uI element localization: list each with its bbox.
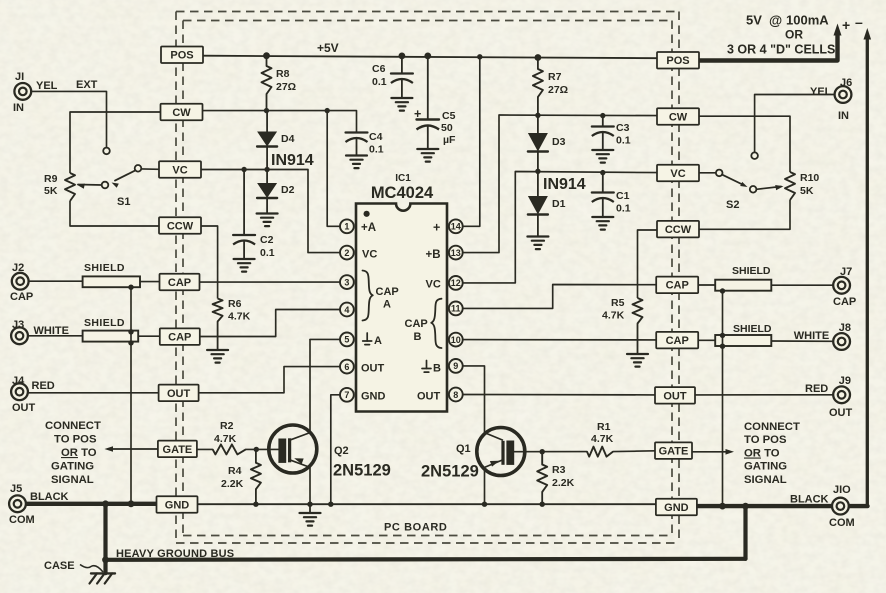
wire pin 1 to CW row [325, 108, 341, 226]
capacitor C3 [592, 113, 614, 150]
pin label VC pin2 [362, 249, 377, 261]
wire VC row left segment [142, 168, 160, 170]
svg-text:5K: 5K [800, 185, 814, 197]
op-amp U1 IC1 MC4024 body [356, 204, 447, 412]
svg-text:0.1: 0.1 [260, 247, 275, 259]
capacitor C1 [592, 170, 614, 217]
wire pin 9 to Q1 collector [463, 366, 504, 440]
svg-text:5K: 5K [44, 185, 58, 197]
svg-text:C2: C2 [260, 234, 274, 246]
svg-text:VC: VC [362, 249, 377, 261]
svg-text:R9: R9 [44, 173, 58, 185]
wire J2 row [29, 280, 83, 282]
label shield J3 [84, 317, 125, 329]
svg-text:@: @ [769, 13, 782, 28]
svg-text:OR: OR [785, 28, 803, 42]
pin label gnd A [363, 333, 382, 347]
svg-text:OR TO: OR TO [61, 447, 97, 459]
brace CAP A [363, 271, 373, 321]
svg-text:R1: R1 [597, 421, 611, 433]
label R9 [44, 173, 58, 197]
svg-text:R4: R4 [228, 465, 242, 477]
node box CW left [161, 104, 203, 121]
svg-text:GND: GND [165, 499, 190, 511]
svg-text:WHITE: WHITE [34, 325, 69, 337]
label CAP B [405, 318, 428, 343]
svg-text:J8: J8 [839, 322, 851, 334]
ground below C6 [391, 98, 412, 111]
svg-text:0.1: 0.1 [372, 76, 387, 88]
diode D3 [528, 115, 548, 174]
svg-text:D1: D1 [552, 198, 566, 210]
label C2 [260, 234, 275, 259]
svg-text:CW: CW [669, 111, 688, 123]
wire +5V rail [203, 56, 658, 59]
svg-text:CAP: CAP [666, 280, 689, 292]
wire CAP box to pin 3 [199, 281, 340, 283]
jack J4 [11, 383, 28, 400]
wire pin 13 to CW row [456, 115, 658, 253]
node box GATE right [655, 442, 692, 459]
label R3 [552, 464, 575, 489]
wire shield4 to J8 [771, 340, 833, 342]
svg-text:C5: C5 [442, 110, 456, 122]
junction dots shields [128, 285, 725, 349]
wire J6 to EXT contact S2 [755, 95, 835, 153]
svg-text:D3: D3 [552, 136, 566, 148]
wire pin 14 to +5V [456, 57, 480, 227]
svg-text:GND: GND [361, 391, 386, 403]
pin label gnd B [422, 361, 441, 375]
shield J2 [83, 276, 140, 287]
wire R9 wiper [78, 184, 102, 187]
label C3 [616, 122, 631, 147]
wire battery positive thick [698, 24, 842, 61]
wire Q2 collector riser [289, 339, 310, 440]
shield J7 [715, 280, 771, 291]
svg-text:1: 1 [344, 222, 349, 232]
svg-text:R8: R8 [276, 68, 290, 80]
svg-text:9: 9 [453, 361, 458, 371]
jack J9 [833, 386, 850, 403]
label J7 [833, 266, 856, 308]
svg-text:RED: RED [805, 383, 828, 395]
jack J2 [12, 273, 29, 290]
pin label +A [361, 222, 376, 234]
svg-text:PC BOARD: PC BOARD [384, 522, 447, 534]
svg-text:SHIELD: SHIELD [732, 265, 771, 277]
jack J8 [833, 333, 850, 350]
label R8 [276, 68, 296, 93]
svg-text:YEL: YEL [36, 80, 58, 92]
resistor R7 [533, 54, 543, 118]
label 1N914 left [271, 152, 314, 169]
junction dots ground bus [102, 500, 749, 563]
svg-text:Q1: Q1 [456, 443, 471, 455]
svg-text:+A: +A [361, 222, 376, 234]
svg-text:POS: POS [666, 55, 689, 67]
label J9 [805, 375, 853, 419]
label shield J8 [733, 323, 772, 335]
label shield J7 [732, 265, 771, 277]
node box VC right [657, 165, 699, 182]
svg-text:CCW: CCW [167, 221, 194, 233]
svg-text:2.2K: 2.2K [552, 477, 575, 489]
wire CCW row [70, 201, 160, 226]
wire S2 wiper to R10 [756, 187, 781, 190]
svg-text:J2: J2 [12, 262, 24, 274]
connect text right [744, 421, 800, 486]
svg-text:27Ω: 27Ω [548, 84, 568, 96]
svg-text:2: 2 [344, 248, 349, 258]
brace CAP B [431, 299, 441, 348]
wire CAP box to pin 4 [198, 310, 340, 337]
wire pin 8 to OUT box [463, 394, 656, 396]
label R5 [602, 297, 625, 322]
svg-text:SHIELD: SHIELD [84, 317, 125, 329]
svg-text:4.7K: 4.7K [602, 310, 625, 322]
IC pin circles with numbers [340, 219, 463, 401]
label J1 [13, 71, 98, 114]
label Q1 2N5129 [421, 463, 479, 481]
svg-text:MC4024: MC4024 [371, 184, 434, 202]
ground below D2 [257, 214, 278, 227]
svg-text:R10: R10 [800, 172, 819, 184]
svg-text:EXT: EXT [76, 79, 98, 91]
svg-text:RED: RED [32, 380, 55, 392]
shield J8 [715, 335, 771, 346]
svg-text:3 OR 4 "D" CELLS: 3 OR 4 "D" CELLS [727, 43, 835, 57]
svg-text:0.1: 0.1 [369, 144, 384, 156]
svg-text:+: + [414, 107, 421, 121]
ground below Q2 emitter [300, 504, 321, 525]
label S1 [117, 196, 130, 208]
node box CAP left 1 [160, 274, 200, 291]
node box CAP left 2 [160, 328, 200, 345]
heavy bus drop left [103, 504, 107, 573]
svg-text:13: 13 [451, 248, 461, 258]
jack J6 [835, 86, 852, 103]
label D2 [281, 184, 295, 196]
ground below C2 [234, 259, 255, 272]
gate arrow right [692, 449, 735, 455]
battery plus terminal [842, 14, 863, 33]
svg-text:SHIELD: SHIELD [733, 323, 772, 335]
label battery [727, 13, 835, 57]
svg-text:Q2: Q2 [334, 445, 349, 457]
label J10 [790, 484, 855, 529]
wire pin 10 to CAP box [463, 339, 657, 341]
svg-text:CONNECT: CONNECT [744, 421, 800, 433]
label Q2 [334, 445, 349, 457]
wire shield1 to CAP box [140, 281, 160, 283]
wire VC row right of box [201, 170, 340, 253]
svg-text:CAP: CAP [376, 286, 399, 298]
capacitor C2 [233, 167, 255, 259]
resistor R2 [213, 444, 259, 454]
wire shield ground bus right [722, 291, 724, 506]
svg-text:50: 50 [441, 122, 453, 134]
svg-text:OUT: OUT [417, 391, 441, 403]
shield J3 [83, 331, 139, 342]
svg-text:S1: S1 [117, 196, 130, 208]
svg-text:POS: POS [170, 50, 193, 62]
label C5 plus [414, 107, 421, 121]
svg-text:–: – [855, 14, 863, 30]
svg-text:R7: R7 [548, 71, 562, 83]
svg-text:J5: J5 [10, 483, 22, 495]
svg-text:+B: +B [426, 249, 441, 261]
label J4 [12, 375, 55, 414]
svg-text:JI: JI [15, 71, 24, 83]
svg-text:CAP: CAP [168, 277, 191, 289]
potentiometer R10 [775, 172, 795, 200]
node box CW right [657, 108, 699, 125]
svg-text:J7: J7 [840, 266, 852, 278]
wire Q1 base to R1 [514, 451, 587, 453]
svg-text:GATE: GATE [659, 446, 689, 458]
svg-text:CONNECT: CONNECT [45, 420, 101, 432]
wire CCW to R6 [200, 226, 218, 299]
svg-text:CAP: CAP [168, 332, 191, 344]
svg-text:3: 3 [344, 277, 349, 287]
svg-text:GND: GND [664, 502, 689, 514]
svg-text:OUT: OUT [829, 407, 853, 419]
svg-text:CCW: CCW [665, 224, 692, 236]
node box VC left [159, 161, 201, 178]
svg-text:14: 14 [451, 222, 461, 232]
node box OUT right [655, 387, 695, 404]
resistor R3 [537, 452, 547, 507]
pin label OUT pin6 [361, 363, 385, 375]
svg-text:GATE: GATE [163, 444, 193, 456]
pin label GND pin7 [361, 391, 386, 403]
svg-text:B: B [414, 331, 422, 343]
wire CW row to R10 [698, 116, 790, 172]
svg-text:2.2K: 2.2K [221, 478, 244, 490]
label MC4024 [371, 184, 434, 202]
capacitor C4 [346, 132, 368, 155]
svg-text:IC1: IC1 [395, 173, 411, 184]
label C1 [616, 190, 631, 215]
wire CAP box to shield4 [698, 339, 715, 341]
node box CCW left [159, 217, 201, 234]
svg-text:COM: COM [9, 514, 35, 526]
label J3 [12, 319, 69, 337]
svg-text:OUT: OUT [361, 363, 385, 375]
battery minus wire [864, 28, 872, 506]
wire pin 12 to VC row [456, 172, 658, 283]
wire shield ground bus left [130, 287, 132, 505]
svg-text:10: 10 [451, 335, 461, 345]
label R6 [228, 298, 251, 323]
label Q1 [456, 443, 471, 455]
label 1N914 right [543, 176, 586, 193]
heavy bus left thick [26, 502, 157, 506]
svg-text:8: 8 [453, 390, 458, 400]
node box GND right [656, 499, 697, 516]
svg-text:µF: µF [443, 134, 456, 146]
heavy bus right thick [697, 504, 868, 508]
svg-text:CASE: CASE [44, 560, 75, 572]
label J8 [794, 322, 851, 342]
node box POS left [161, 47, 203, 64]
label C4 [369, 131, 384, 156]
svg-text:4.7K: 4.7K [228, 311, 251, 323]
svg-text:J4: J4 [12, 375, 25, 387]
svg-text:12: 12 [451, 278, 461, 288]
gate arrow left [105, 446, 159, 452]
svg-text:IN914: IN914 [271, 152, 314, 169]
label Q2 2N5129 [333, 462, 391, 480]
svg-text:CAP: CAP [833, 296, 856, 308]
label case [44, 560, 103, 572]
wire J4 to OUT box [28, 392, 159, 394]
wire J1 to EXT contact [31, 91, 106, 147]
svg-text:WHITE: WHITE [794, 330, 829, 342]
wire Q1 emitter drop [485, 460, 504, 505]
ground chassis case [90, 573, 116, 583]
node box OUT left [159, 385, 199, 402]
label J6 [810, 77, 852, 122]
svg-text:OUT: OUT [167, 388, 191, 400]
wire CCW row right [698, 200, 790, 229]
pin label +B [426, 249, 441, 261]
svg-text:S2: S2 [726, 199, 739, 211]
svg-text:JIO: JIO [833, 484, 851, 496]
jack J7 [833, 277, 850, 294]
node box CCW right [657, 221, 699, 238]
heavy ground bus horizontal [106, 559, 746, 560]
node box GND left [157, 496, 198, 513]
wire Q2 emitter drop [289, 460, 310, 505]
svg-text:2N5129: 2N5129 [333, 462, 391, 480]
svg-text:6: 6 [344, 362, 349, 372]
label R1 [591, 421, 614, 445]
wire VC row right box to S2 [698, 172, 716, 174]
svg-text:A: A [374, 335, 382, 347]
svg-text:COM: COM [829, 517, 855, 529]
svg-text:D4: D4 [281, 133, 295, 145]
svg-text:YEL: YEL [810, 86, 832, 98]
wire CW row right of box [202, 111, 357, 132]
svg-text:IN914: IN914 [543, 176, 586, 193]
svg-text:C4: C4 [369, 131, 383, 143]
label D1 [552, 198, 566, 210]
svg-text:C6: C6 [372, 63, 386, 75]
pin label VC pin12 [426, 279, 441, 291]
label S2 [726, 199, 739, 211]
label J5 [9, 483, 69, 526]
label heavy ground bus [116, 548, 234, 560]
svg-text:B: B [433, 363, 441, 375]
ground below C3 [592, 150, 613, 163]
diode D1 [528, 171, 548, 236]
svg-text:5V: 5V [746, 13, 762, 28]
ground below D1 [527, 237, 548, 250]
label IC1 [395, 173, 411, 184]
diode D2 [257, 170, 277, 214]
svg-text:GATING: GATING [744, 461, 787, 473]
svg-text:5: 5 [344, 335, 349, 345]
svg-text:100mA: 100mA [786, 13, 829, 28]
svg-text:HEAVY GROUND BUS: HEAVY GROUND BUS [116, 548, 234, 560]
jack J10 [832, 498, 849, 515]
svg-text:+5V: +5V [317, 41, 339, 55]
junction dots rails [425, 53, 482, 59]
label R10 [800, 172, 819, 197]
svg-text:0.1: 0.1 [616, 135, 631, 147]
svg-text:R2: R2 [220, 420, 234, 432]
label C5 [441, 110, 456, 146]
svg-text:11: 11 [451, 304, 461, 314]
wire CCW box to R5 [638, 230, 657, 298]
svg-text:27Ω: 27Ω [276, 81, 296, 93]
wire GATE to R2 [196, 448, 213, 450]
svg-text:GATING: GATING [51, 461, 94, 473]
node box CAP right 1 [656, 277, 698, 294]
svg-text:+: + [433, 221, 440, 235]
ground below R5 [627, 354, 648, 367]
capacitor C6 [391, 53, 413, 98]
potentiometer R9 [65, 173, 85, 201]
node box GATE left [158, 441, 197, 458]
ground below R6 [207, 350, 228, 363]
svg-text:CW: CW [172, 107, 191, 119]
wire CAP box to shield3 [698, 284, 715, 286]
svg-text:BLACK: BLACK [30, 491, 69, 503]
wire pin 5 stub [310, 338, 340, 340]
svg-text:7: 7 [344, 390, 349, 400]
switch S1 [102, 148, 142, 189]
ground below C5 [417, 149, 438, 162]
svg-text:SIGNAL: SIGNAL [51, 474, 94, 486]
jack J5 [9, 495, 26, 512]
resistor R5 [633, 298, 643, 354]
svg-text:4.7K: 4.7K [591, 433, 614, 445]
svg-text:IN: IN [838, 110, 849, 122]
+5V label [317, 41, 339, 55]
wire R2 to Q2 base [246, 448, 279, 450]
label CAP A [376, 286, 399, 311]
svg-text:D2: D2 [281, 184, 295, 196]
svg-text:C1: C1 [616, 190, 630, 202]
svg-text:BLACK: BLACK [790, 494, 829, 506]
svg-text:CAP: CAP [405, 318, 428, 330]
svg-text:IN: IN [13, 102, 24, 114]
pin label OUT pin8 [417, 391, 441, 403]
wire shield2 to CAP box [138, 335, 161, 337]
PC BOARD label [384, 522, 447, 534]
connect text left [45, 420, 101, 486]
svg-text:TO POS: TO POS [744, 434, 787, 446]
svg-text:R5: R5 [611, 297, 625, 309]
label D3 [552, 136, 566, 148]
svg-text:R6: R6 [228, 298, 242, 310]
PC board dashed outline [176, 12, 679, 544]
transistor Q1 [477, 428, 525, 476]
resistor R1 [540, 447, 614, 457]
label R2 [214, 420, 237, 445]
transistor Q2 [269, 425, 317, 473]
wire J3 row [29, 335, 83, 337]
label C6 [372, 63, 387, 88]
svg-text:OUT: OUT [663, 390, 687, 402]
svg-text:VC: VC [426, 279, 441, 291]
wire center ground bus [197, 503, 656, 505]
wire pin 7 drop [331, 395, 340, 504]
svg-text:0.1: 0.1 [616, 203, 631, 215]
